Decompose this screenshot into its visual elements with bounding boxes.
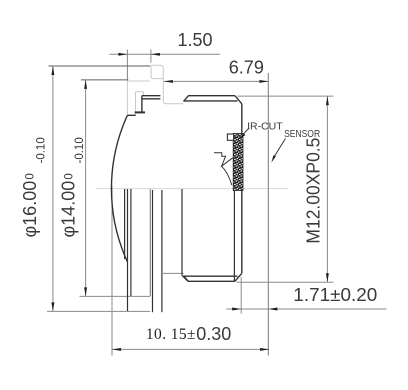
svg-text:φ14.00: φ14.00 <box>59 181 79 238</box>
svg-text:0: 0 <box>63 173 75 179</box>
svg-text:-0.10: -0.10 <box>74 137 86 163</box>
svg-text:M12.00XP0.5: M12.00XP0.5 <box>304 138 324 244</box>
svg-text:10. 15±: 10. 15± <box>146 326 196 343</box>
svg-text:φ16.00: φ16.00 <box>20 181 40 238</box>
svg-text:0: 0 <box>25 173 37 179</box>
svg-text:6.79: 6.79 <box>229 58 264 78</box>
svg-text:1.50: 1.50 <box>178 30 213 50</box>
svg-text:IR-CUT: IR-CUT <box>247 121 283 133</box>
svg-text:SENSOR: SENSOR <box>284 128 320 140</box>
svg-text:1.71±0.20: 1.71±0.20 <box>293 285 377 305</box>
svg-text:-0.10: -0.10 <box>35 137 47 163</box>
svg-text:0.30: 0.30 <box>196 324 231 344</box>
